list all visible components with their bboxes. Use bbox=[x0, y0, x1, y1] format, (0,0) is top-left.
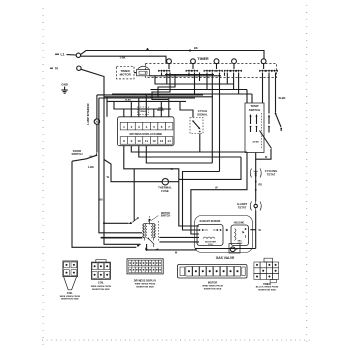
temp switch contact column 1 bbox=[249, 114, 251, 132]
svg-text:RELAY: RELAY bbox=[157, 109, 164, 112]
svg-text:DRYNESS DISPLAY: DRYNESS DISPLAY bbox=[134, 280, 157, 283]
timer terminal T1 bbox=[167, 59, 172, 64]
wire L1 to timer (BK) bbox=[67, 51, 265, 59]
timer box (dashed) bbox=[145, 64, 276, 78]
stub timer T4 to contacts bbox=[233, 64, 235, 69]
timer cam switch contact group 2b bbox=[191, 70, 198, 73]
connector block coil plug 1 bbox=[60, 261, 81, 301]
svg-text:A-FAB: A-FAB bbox=[252, 141, 259, 144]
wire feeds into dryness block pins bbox=[124, 95, 169, 117]
svg-text:BU: BU bbox=[132, 94, 136, 97]
cycle signal switch (dashed box) bbox=[190, 118, 203, 134]
svg-text:WIRE VIEWS FROM: WIRE VIEWS FROM bbox=[135, 284, 156, 286]
drop contact 3a bbox=[206, 73, 208, 90]
timer cam switch contact group 4b bbox=[224, 70, 231, 73]
stub timer T5 to contacts bbox=[263, 64, 265, 69]
svg-text:BU: BU bbox=[100, 199, 104, 202]
thermal fuse label bbox=[158, 185, 172, 193]
connector block dryness display bbox=[127, 259, 163, 289]
triac module (dashed) bbox=[138, 107, 149, 115]
svg-text:SWITCH: SWITCH bbox=[249, 108, 260, 112]
terminal N bbox=[50, 66, 81, 71]
drop temp switch feed 2 bbox=[251, 94, 253, 103]
stub timer T2 to contacts bbox=[192, 64, 194, 69]
svg-text:MOTOR: MOTOR bbox=[120, 73, 132, 77]
timer terminal T2 bbox=[191, 59, 196, 64]
drop contact 4c bbox=[233, 73, 235, 90]
bus wire y94 right part bbox=[112, 93, 252, 95]
svg-text:TIMER: TIMER bbox=[263, 283, 271, 286]
gas valve coil box left bbox=[197, 225, 223, 246]
bus wire y89.5 bbox=[151, 89, 248, 91]
thermal fuse F1 bbox=[162, 179, 168, 185]
wire x178.8 vertical bbox=[168, 169, 199, 226]
stub timer T1 to contacts bbox=[168, 64, 170, 69]
timer cam switch contact group 4d bbox=[235, 70, 242, 73]
cycling tstat label bbox=[265, 169, 278, 177]
motor centrifugal switch bbox=[145, 237, 159, 250]
svg-text:1-BK: 1-BK bbox=[88, 165, 94, 169]
connector block motor bbox=[178, 265, 248, 291]
wire cycle signal feed bbox=[180, 101, 193, 117]
nest corner c bbox=[199, 73, 201, 82]
timer terminal T4 bbox=[232, 59, 237, 64]
drop contact 4b bbox=[226, 73, 228, 85]
stub timer T3 to contacts bbox=[216, 64, 218, 69]
timer cam switch contact group 4a bbox=[216, 70, 223, 73]
wire motor bottom junction bbox=[146, 244, 148, 251]
svg-text:LAMP INTERIOR: LAMP INTERIOR bbox=[86, 103, 90, 124]
drop contact 4d bbox=[238, 73, 240, 95]
junction tick on L1 wire bbox=[146, 46, 198, 52]
wire motor right to gas valve lower bbox=[159, 241, 199, 243]
svg-text:WIRE VIEWS FROM: WIRE VIEWS FROM bbox=[91, 286, 112, 288]
motor main winding bbox=[143, 215, 155, 239]
timer cam switch contact group 5c bbox=[271, 70, 278, 73]
timer motor coil bbox=[134, 66, 150, 76]
radiant sensor label bbox=[200, 220, 221, 223]
wire left loop outer bbox=[99, 98, 142, 233]
temp switch mech link (dashed) bbox=[261, 113, 263, 148]
svg-text:TSTAT: TSTAT bbox=[267, 173, 276, 177]
bottom perforation fold line (decorative dots) bbox=[42, 340, 310, 341]
motor winding dashed link right bbox=[158, 221, 160, 241]
wire left bus y98 bbox=[99, 97, 195, 99]
dryness module pin row 1-7 bbox=[120, 122, 173, 130]
stub gas valve right box to bottom bus bbox=[239, 246, 241, 249]
wire left bus y101.4 bbox=[107, 97, 186, 117]
bus wire y76 from coil bbox=[150, 75, 222, 77]
timer cam switch contact group 1a bbox=[158, 70, 165, 73]
svg-text:W-BK: W-BK bbox=[125, 100, 131, 102]
drop contact 5a to temp switch bbox=[262, 73, 264, 104]
wire thermal fuse line bbox=[104, 160, 179, 182]
temp switch box bbox=[245, 103, 264, 153]
svg-text:NO: NO bbox=[90, 156, 94, 158]
left perforation fold line (decorative dots) bbox=[43, 8, 44, 345]
nest corner b bbox=[158, 75, 175, 97]
drop temp switch feed 1 bbox=[246, 90, 248, 104]
timer cam switch contact group 3a bbox=[204, 70, 211, 73]
timer cam switch contact group 5a bbox=[259, 70, 266, 73]
wire block pin9 down to y152 bbox=[131, 146, 247, 153]
timer cam switch contact group 2a bbox=[186, 70, 193, 73]
svg-text:COIL: COIL bbox=[208, 244, 214, 246]
cycle signal label bbox=[197, 109, 208, 116]
junction dot N wire bbox=[103, 222, 105, 224]
timer terminal T5 bbox=[261, 59, 266, 64]
temp switch outside contacts bbox=[268, 114, 270, 132]
svg-text:GND: GND bbox=[61, 83, 69, 87]
svg-text:12: 12 bbox=[152, 139, 156, 143]
svg-text:INSERTION SIDE: INSERTION SIDE bbox=[61, 299, 79, 301]
label HTR relay small bbox=[157, 108, 164, 112]
wire branch x134 to motor bbox=[133, 169, 135, 221]
svg-text:13: 13 bbox=[160, 139, 164, 143]
svg-text:14: 14 bbox=[167, 139, 171, 143]
drop contact 2b bbox=[194, 73, 196, 95]
svg-text:INSERTION SIDE: INSERTION SIDE bbox=[92, 289, 110, 291]
wire lamp drop bbox=[96, 95, 98, 119]
drop contact 1a bbox=[161, 73, 163, 76]
svg-text:WIRE VIEWS FROM: WIRE VIEWS FROM bbox=[60, 296, 81, 298]
bus wire y96.8 bbox=[104, 96, 213, 98]
wire right drop x241 corner bbox=[179, 157, 241, 179]
temp switch outside lever bbox=[275, 113, 283, 131]
svg-text:SWITCH: SWITCH bbox=[161, 215, 171, 218]
wire L1 to timer terminal 1 (1-BK) bbox=[81, 56, 168, 62]
wire bottom left to motor switch bbox=[137, 244, 141, 247]
temp switch bottom step wire bbox=[256, 149, 271, 159]
wire lamp to door switch bbox=[96, 124, 98, 152]
wire block pin10 down to y157 bbox=[139, 146, 241, 158]
wire B corner x220 to x182.5 bbox=[183, 172, 220, 231]
wire temp switch to cycling tstat bbox=[255, 159, 257, 168]
wire door switch down and along bottom bbox=[72, 161, 136, 247]
motor switch label bbox=[151, 212, 171, 221]
svg-text:SIGNAL: SIGNAL bbox=[197, 112, 208, 116]
svg-text:TSTAT: TSTAT bbox=[238, 205, 247, 209]
temp switch selector diagonal bbox=[260, 131, 272, 149]
ground symbol GND bbox=[61, 83, 69, 94]
wire motor relay to left bbox=[104, 222, 129, 224]
drop contact 4a2 bbox=[224, 73, 226, 76]
svg-text:L1: L1 bbox=[61, 53, 65, 57]
svg-text:GAS VALVE: GAS VALVE bbox=[216, 256, 235, 260]
temp switch contact column 2 bbox=[255, 114, 257, 132]
svg-text:W-BK: W-BK bbox=[279, 96, 286, 100]
svg-text:SWITCH: SWITCH bbox=[71, 152, 82, 156]
bus wire y74.5 short bbox=[165, 74, 214, 76]
motor top contact arrow bbox=[147, 218, 151, 224]
drop contact 2a bbox=[188, 73, 190, 76]
wire left bus y109 bbox=[114, 101, 171, 109]
drop contact 5c wire W-BK bbox=[276, 73, 286, 113]
wire cycle signal out bbox=[199, 134, 201, 153]
svg-text:11: 11 bbox=[145, 139, 149, 143]
bus wire y84 bbox=[155, 76, 234, 84]
door switch DS bbox=[71, 149, 97, 169]
svg-text:DRYNESS DISPLAY/CHIME: DRYNESS DISPLAY/CHIME bbox=[129, 132, 162, 136]
timer terminal T3 bbox=[214, 59, 219, 64]
svg-text:TIMER: TIMER bbox=[197, 57, 209, 61]
timer cam switch contact group 1b bbox=[163, 70, 170, 73]
motor relay left contact bbox=[128, 217, 139, 225]
ignitor box bbox=[229, 244, 240, 254]
gas valve outer enclosure bbox=[195, 216, 253, 253]
temp switch label bbox=[249, 104, 260, 112]
wire block pin8 down bbox=[124, 146, 168, 169]
svg-text:HOLDING: HOLDING bbox=[234, 223, 245, 225]
svg-text:10: 10 bbox=[137, 139, 141, 143]
drop contact 4a long B x219.5 bbox=[219, 73, 221, 172]
drop contact 5b bbox=[268, 73, 270, 114]
svg-text:BLOCK VIEWS FROM: BLOCK VIEWS FROM bbox=[256, 287, 279, 289]
svg-text:BK: BK bbox=[194, 46, 198, 50]
cycling thermostat bbox=[250, 169, 261, 178]
h-limit label bbox=[237, 202, 248, 210]
svg-text:RD: RD bbox=[259, 184, 263, 187]
connector block coil plug 2 bbox=[91, 260, 112, 291]
drop contact 1b bbox=[166, 73, 168, 85]
svg-text:WIRE VIEWS FROM: WIRE VIEWS FROM bbox=[202, 285, 223, 287]
lamp interior bulb bbox=[94, 119, 99, 124]
timer cam switch contact group 5b bbox=[266, 70, 273, 73]
wire N down left side bbox=[81, 69, 141, 244]
timer motor label bbox=[120, 69, 132, 77]
svg-text:COIL: COIL bbox=[98, 282, 104, 285]
svg-text:MOTOR: MOTOR bbox=[208, 281, 217, 284]
dryness display/chime module U1 bbox=[118, 117, 175, 146]
long drop A x213 bbox=[211, 73, 213, 164]
wire block pin11 down to y163 bbox=[146, 146, 212, 164]
gas valve coil box right bbox=[231, 225, 249, 246]
connector block timer bbox=[254, 258, 279, 291]
wire mid bus thick double bbox=[101, 237, 199, 238]
svg-text:INSERTION SIDE: INSERTION SIDE bbox=[204, 288, 222, 290]
svg-text:RADIANT SENSOR: RADIANT SENSOR bbox=[200, 220, 221, 223]
wire left bus upper (to lamp branch) bbox=[97, 94, 203, 96]
wire bottom bus to gas valve bbox=[147, 249, 256, 255]
terminal L1 bbox=[55, 53, 81, 58]
timer cam switch contact group 4c bbox=[230, 70, 237, 73]
svg-text:INSERTION SIDE: INSERTION SIDE bbox=[258, 289, 276, 291]
svg-text:INSERTION SIDE: INSERTION SIDE bbox=[136, 286, 154, 288]
svg-text:TRIAC: TRIAC bbox=[140, 110, 147, 113]
timer cam switch contact group 3b bbox=[209, 70, 216, 73]
hi-limit thermostat bbox=[250, 202, 261, 211]
timer motor box (dashed) bbox=[116, 66, 134, 79]
junction diamond between gas valve coils bbox=[226, 229, 229, 232]
svg-text:FUSE: FUSE bbox=[161, 189, 169, 193]
nest corner a bbox=[152, 73, 170, 100]
svg-text:COIL: COIL bbox=[67, 292, 73, 295]
wire h-limit down to gas valve bbox=[250, 211, 261, 249]
dryness module pin row 8-14 bbox=[120, 137, 173, 145]
wire cycling tstat to h-limit bbox=[255, 178, 263, 202]
wire right drop x247 corner bbox=[191, 152, 247, 234]
right perforation fold line (decorative dots) bbox=[306, 5, 307, 342]
